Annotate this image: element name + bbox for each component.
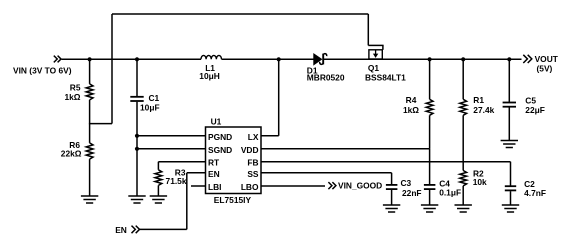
svg-text:Q1: Q1: [368, 63, 380, 73]
node VIN_GOOD arrow and label: [328, 181, 382, 191]
pin SS: [247, 169, 259, 179]
svg-text:R4: R4: [406, 95, 417, 105]
capacitor C5 22uF: [503, 57, 545, 140]
pin FB: [247, 158, 258, 168]
node EN input arrow: [115, 225, 139, 235]
wire LX pin up to inductor/diode node: [261, 57, 281, 136]
node VIN label: [13, 66, 72, 76]
pin LX: [248, 132, 259, 142]
wire PGND pin to ground line: [137, 135, 206, 137]
transistor Q1 BSS84LT1: [365, 14, 406, 83]
svg-text:BSS84LT1: BSS84LT1: [365, 73, 406, 83]
svg-text:MBR0520: MBR0520: [307, 73, 345, 83]
svg-text:EN: EN: [115, 225, 127, 235]
svg-text:RT: RT: [208, 158, 220, 168]
pin VDD: [241, 145, 259, 155]
wire SGND pin to ground line: [137, 148, 206, 150]
resistor R4 1k: [403, 57, 433, 149]
wire: main VIN-to-VOUT rail y=59: [62, 58, 522, 60]
ground (R6): [81, 196, 98, 203]
wire FB pin to divider and C2: [261, 161, 511, 163]
svg-text:4.7nF: 4.7nF: [524, 188, 546, 198]
svg-text:FB: FB: [247, 158, 258, 168]
node PGND/SGND junction dots on C1 ground line: [135, 134, 139, 151]
svg-text:22nF: 22nF: [402, 188, 422, 198]
svg-text:C3: C3: [401, 178, 412, 188]
diode D1 MBR0520 schottky: [307, 54, 345, 83]
svg-text:0.1μF: 0.1μF: [439, 187, 461, 197]
svg-text:VDD: VDD: [241, 145, 259, 155]
svg-text:10μF: 10μF: [140, 102, 160, 112]
resistor R5 1k: [64, 57, 93, 123]
node VOUT output arrow: [523, 55, 532, 63]
pin LBI stub: [191, 185, 206, 187]
capacitor C2 4.7nF: [505, 162, 546, 205]
ground (R3): [150, 196, 167, 203]
svg-text:U1: U1: [211, 116, 222, 126]
ground (C3): [383, 205, 400, 212]
svg-text:LX: LX: [248, 132, 259, 142]
svg-text:VOUT: VOUT: [535, 54, 559, 64]
node VIN input arrow: [54, 56, 61, 63]
pin PGND: [208, 132, 232, 142]
svg-text:R1: R1: [473, 95, 484, 105]
inductor L1 10uH: [199, 55, 221, 80]
wire EN pin from bottom EN input: [139, 173, 206, 230]
svg-text:VIN_GOOD: VIN_GOOD: [338, 181, 382, 191]
resistor R3 71.5k: [155, 162, 187, 196]
svg-text:22kΩ: 22kΩ: [61, 149, 82, 159]
svg-text:PGND: PGND: [208, 132, 232, 142]
svg-text:EN: EN: [208, 169, 220, 179]
ground (R2): [455, 205, 472, 212]
svg-text:SS: SS: [247, 169, 259, 179]
node VOUT label: [535, 54, 559, 74]
svg-text:VIN (3V TO 6V): VIN (3V TO 6V): [13, 66, 72, 76]
ground (C5): [501, 141, 518, 148]
wire RT pin to R3: [158, 161, 205, 163]
wire SS pin to C3: [261, 173, 392, 185]
svg-text:EL7515IY: EL7515IY: [214, 195, 252, 205]
capacitor C3 22nF: [386, 178, 422, 205]
resistor R1 27.4k: [460, 57, 495, 162]
capacitor C1 10uF: [130, 57, 159, 196]
svg-text:R5: R5: [70, 83, 81, 93]
svg-text:SGND: SGND: [208, 145, 232, 155]
wire: top rail from divider node to Q1 gate: [89, 14, 368, 124]
pin LBO: [241, 182, 259, 192]
capacitor C4 0.1uF: [424, 149, 461, 205]
svg-text:(5V): (5V): [537, 64, 553, 74]
pin LBI: [208, 182, 222, 192]
pin SGND: [208, 145, 232, 155]
svg-text:1kΩ: 1kΩ: [403, 105, 419, 115]
svg-text:10μH: 10μH: [199, 71, 220, 81]
ground (C1 / PGND / SGND): [128, 196, 145, 203]
pin RT: [208, 158, 220, 168]
ground (C4): [421, 205, 438, 212]
svg-text:1kΩ: 1kΩ: [64, 92, 80, 102]
svg-text:10k: 10k: [473, 177, 487, 187]
svg-text:22μF: 22μF: [525, 105, 545, 115]
wire VDD pin to R4/C4 node: [261, 148, 430, 150]
IC U1 EL7515IY: [206, 116, 262, 205]
resistor R2 10k: [460, 162, 487, 205]
svg-text:LBI: LBI: [208, 182, 222, 192]
svg-text:27.4k: 27.4k: [473, 105, 494, 115]
pin EN: [208, 169, 220, 179]
svg-text:LBO: LBO: [241, 182, 259, 192]
resistor R6 22k: [61, 124, 93, 196]
ground (C2): [502, 205, 519, 212]
svg-text:71.5k: 71.5k: [166, 176, 187, 186]
svg-text:C5: C5: [525, 96, 536, 106]
wire LBO pin to VIN_GOOD: [261, 185, 325, 187]
